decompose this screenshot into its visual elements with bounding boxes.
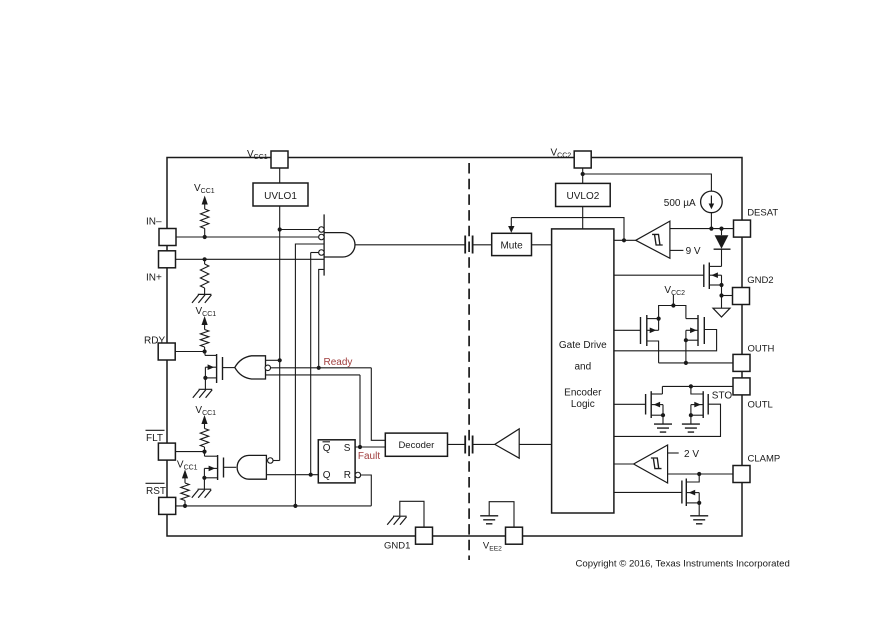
wire Ready net horizontal [271, 367, 372, 369]
wire UVLO2 net to comparator node [511, 218, 624, 241]
wire CLAMP net [668, 473, 733, 475]
capacitor C2 isolation (feedback channel) [464, 436, 466, 454]
svg-text:VCC1: VCC1 [177, 460, 198, 472]
svg-text:Copyright © 2016, Texas Instru: Copyright © 2016, Texas Instruments Inco… [576, 559, 790, 570]
wire M5 source to ground [698, 503, 700, 516]
M5 drain stub to CLAMP net [686, 474, 699, 482]
wire DESAT net [670, 228, 733, 230]
wire M2 drain to OUTH rail [685, 340, 687, 363]
wire GND2 net to ground symbol [721, 296, 723, 309]
svg-text:GND1: GND1 [384, 540, 410, 551]
wire resistor to RDY line [204, 347, 206, 352]
junction OUTH rail [684, 361, 688, 365]
block UVLO2 [556, 183, 611, 206]
svg-text:GND2: GND2 [747, 275, 773, 286]
gate G3 FLT NAND (mirrored) [237, 455, 266, 479]
G1 input edge line [323, 214, 325, 275]
svg-text:OUTH: OUTH [748, 343, 775, 354]
wire FLT pin to pull-up node [175, 451, 204, 453]
wire VCC2 to current source [583, 174, 712, 191]
svg-text:VCC1: VCC1 [196, 306, 217, 318]
ground (M3 source) [654, 424, 672, 432]
svg-text:VCC1: VCC1 [247, 149, 268, 161]
hysteresis glyph U3 [652, 234, 663, 245]
Q2 channel [217, 455, 219, 480]
gate G2 RDY NOR (mirrored) [235, 356, 266, 379]
svg-text:CLAMP: CLAMP [748, 454, 781, 465]
Q1 source stub [205, 377, 216, 379]
pin GND1 [416, 527, 433, 544]
svg-text:VCC1: VCC1 [195, 405, 216, 417]
wire Q net to AND bubble 4 [311, 252, 319, 254]
M6 gate plate [703, 265, 705, 288]
junction RST branch to AND [293, 504, 297, 508]
svg-text:Q: Q [323, 443, 331, 454]
wire RST net to FF R input [361, 475, 372, 506]
wire resistor to RST line [184, 501, 186, 506]
junction IN+ resistor [203, 257, 207, 261]
buffer U4 feedback channel [495, 429, 519, 458]
wire M3 source to ground [662, 415, 664, 424]
M2 body tie [685, 330, 687, 340]
svg-text:IN+: IN+ [146, 273, 162, 284]
M4 channel [702, 391, 704, 418]
M6 channel [708, 263, 710, 290]
ground GND1 (Q2 source) [192, 489, 211, 498]
wire Fault net FF S to Decoder [355, 446, 385, 448]
wire FF Q output to G3 input 2 [266, 474, 318, 476]
wire Q2 drain to FLT line [204, 452, 206, 457]
op-amp U3 DESAT comparator (9V) [636, 221, 670, 258]
wire Mute to Gate Drive block [532, 244, 552, 246]
svg-text:and: and [574, 362, 591, 373]
wire IN+ to AND input 5 [176, 258, 325, 260]
wire VCC2 rail [659, 306, 686, 319]
wire current source to DESAT node [710, 213, 712, 229]
M3 body arrow [654, 402, 661, 408]
wire resistor to FLT line [204, 447, 206, 452]
wire U5 2V reference stub [668, 452, 679, 454]
wire UVLO2 net to Mute arrow [510, 218, 512, 227]
svg-text:STO: STO [712, 390, 733, 401]
transistor Q1 RDY open-drain MOSFET [204, 351, 206, 353]
VCC1 supply arrow (RDY) [202, 316, 208, 325]
resistor IN+ to ground [200, 264, 208, 288]
bubble G2 inverted input (Ready) [265, 365, 271, 371]
svg-text:UVLO2: UVLO2 [567, 191, 600, 202]
svg-text:RDY: RDY [144, 335, 165, 346]
M6 source stub [709, 284, 721, 286]
M5 body arrow [689, 490, 696, 496]
svg-text:DESAT: DESAT [747, 208, 778, 219]
wire U5 output to Gate Drive [614, 463, 634, 465]
svg-text:9 V: 9 V [686, 246, 701, 257]
pin GND2 [733, 288, 750, 305]
wire U3 9V reference stub [670, 249, 684, 251]
ground (M5 source) [690, 516, 708, 524]
svg-text:Gate Drive: Gate Drive [559, 340, 607, 351]
wire Fault net vertical [359, 375, 361, 447]
pin VEE2 [506, 527, 523, 544]
VCC1 supply arrow (RST) [182, 469, 188, 478]
flip-flop U2 (SR latch) [318, 440, 355, 483]
VCC1 supply arrow (FLT) [201, 415, 207, 424]
wire Gate Drive to buffer U4 [519, 443, 551, 445]
wire Gate Drive to M5 gate [614, 491, 682, 493]
M6 drain stub [709, 265, 721, 267]
pin IN+ [159, 251, 176, 268]
bubble U2 R input (active low) [355, 472, 361, 478]
junction M4 source/body [689, 413, 693, 417]
pin OUTL [733, 378, 750, 395]
wire Q net vertical to AND input 4 [310, 253, 312, 475]
pin VCC1 [271, 151, 288, 168]
wire Q2 source to ground [203, 478, 205, 489]
isolation barrier (dashed) [468, 163, 470, 560]
pin DESAT [734, 220, 751, 237]
svg-text:S: S [344, 443, 351, 454]
M4 gate plate [707, 394, 709, 415]
wire Q1 drain to RDY line [204, 352, 206, 356]
M2 channel [697, 315, 699, 346]
svg-text:UVLO1: UVLO1 [264, 191, 297, 202]
M5 channel [685, 479, 687, 507]
M5 body stub [686, 492, 699, 494]
resistor RST pull-up [181, 483, 189, 501]
wire M6 source to GND2 net [721, 285, 723, 296]
wire UVLO2 to Gate Drive block [582, 207, 584, 229]
M1 gate plate [640, 317, 642, 344]
M4 body stub [691, 404, 703, 406]
M6 body arrow [711, 272, 718, 278]
hysteresis glyph U5 [651, 458, 662, 469]
wire UVLO1 net to RDY-gate input 1 [266, 359, 280, 361]
wire UVLO1 net to AND input 1 [280, 229, 319, 231]
Q1 channel [216, 354, 218, 383]
VCC1 supply arrow (IN-) [202, 196, 208, 205]
M5 source stub [686, 502, 699, 504]
wire RDY-gate output to Q1 gate [223, 367, 236, 369]
M4 drain stub to OUTL rail [691, 386, 703, 394]
diode D1 DESAT [721, 229, 723, 236]
wire resistor to IN- line [204, 229, 206, 238]
Q1 body-source tie [204, 367, 206, 378]
wire UVLO1 net to FLT-gate bubble [273, 460, 280, 462]
current source I1 500uA [701, 191, 723, 213]
wire U3 output to Gate Drive [614, 239, 636, 241]
M2 drain stub [686, 339, 698, 341]
wire Gate Drive to M1 gate [614, 329, 641, 331]
M2 gate plate [703, 317, 705, 344]
svg-text:VEE2: VEE2 [483, 540, 502, 552]
M1 source stub [647, 318, 659, 320]
wire Decoder to isolation cap [448, 443, 466, 445]
Q2 gate plate [223, 458, 225, 478]
junction comparator output node [622, 238, 626, 242]
junction RST pull-up [183, 504, 187, 508]
wire VEE2 pin to ground [489, 502, 514, 528]
wire GND1 pin to chassis ground [400, 501, 424, 527]
M3 drain stub [651, 393, 662, 395]
pin RDY [158, 343, 175, 360]
wire Q1 source to ground [204, 378, 206, 389]
Q1 body stub [205, 366, 216, 368]
M4 body-source tie [690, 405, 692, 416]
resistor FLT pull-up [200, 429, 208, 448]
Q1 body arrow [208, 364, 215, 370]
junction Ready net branch [317, 366, 321, 370]
wire resistor to ground [204, 288, 206, 294]
junction Q2 source/body [202, 476, 206, 480]
junction M2 body/drain [684, 338, 688, 342]
M6 body-source tie [721, 275, 723, 285]
M1 drain to OUTH rail [647, 341, 659, 363]
M1 body-source tie [658, 319, 660, 331]
wire Gate Drive to M6 gate [614, 274, 704, 276]
pin VCC2 [574, 151, 591, 168]
wire RDY pin to pull-up node [175, 351, 204, 353]
M1 channel [646, 315, 648, 346]
M4 body arrow [694, 402, 701, 408]
block Gate Drive and Encoder Logic [552, 229, 614, 513]
ground GND1 (Q1 source) [193, 389, 212, 398]
Q2 source stub [204, 477, 217, 479]
Q2 drain stub [205, 455, 218, 457]
svg-text:Mute: Mute [500, 240, 523, 251]
Q1 drain stub [205, 354, 217, 356]
M4 source stub [691, 414, 703, 416]
M3 gate plate [645, 394, 647, 415]
resistor RDY pull-up [200, 330, 208, 348]
M3 channel [650, 391, 652, 418]
wire IN+ line to resistor [204, 259, 206, 264]
wire OUTL rail riser left [661, 386, 663, 394]
M3 body-source tie [662, 405, 664, 416]
pin IN- [159, 229, 176, 246]
bubble G1 input 4 (Q) [319, 250, 325, 256]
svg-text:500 µA: 500 µA [664, 198, 696, 209]
junction VCC2 rail [671, 303, 675, 307]
junction M5 source/body [697, 501, 701, 505]
wire Gate Drive STO line to M4 gate [614, 404, 721, 436]
wire VCC2 label stub [672, 295, 674, 306]
overline RST [146, 482, 165, 484]
svg-text:OUTL: OUTL [748, 399, 773, 410]
M3 source stub [651, 414, 663, 416]
wire VCC1 pin to UVLO1 [279, 168, 281, 183]
wire D1 cathode to M6 drain [721, 249, 723, 266]
resistor IN- pull-up [201, 209, 209, 229]
bubble G1 input 1 (UVLO1) [319, 227, 325, 233]
svg-text:IN–: IN– [146, 217, 162, 228]
op-amp U5 CLAMP comparator (2V) [634, 445, 668, 483]
wire Gate Drive to M3 gate [614, 403, 646, 405]
wire RST net to AND input 3 [295, 244, 324, 506]
bubble G1 input 2 (IN-) [319, 234, 325, 240]
M1 body arrow [650, 328, 657, 334]
pin CLAMP [733, 466, 750, 483]
svg-text:Logic: Logic [571, 399, 595, 410]
wire G2 input 3 to Fault net [266, 374, 361, 376]
overline FLT [146, 429, 165, 431]
pin OUTH [733, 354, 750, 371]
junction Fault net [358, 445, 362, 449]
M1 body stub [647, 329, 659, 331]
junction M3 source/body [661, 413, 665, 417]
wire RST net horizontal [176, 505, 372, 507]
junction M1 source/body [657, 317, 661, 321]
block Decoder [385, 433, 447, 456]
wire G1 output to isolation cap [355, 244, 465, 246]
arrow into Mute [508, 226, 514, 233]
junction DESAT/current source [709, 227, 713, 231]
capacitor C1 isolation (forward channel) [464, 236, 466, 254]
M2 body stub [686, 329, 698, 331]
junction GND2 net [719, 293, 723, 297]
svg-text:Encoder: Encoder [564, 387, 602, 398]
junction FLT pull-up/drain [202, 450, 206, 454]
svg-text:Q: Q [323, 470, 331, 481]
junction Q net branch to AND [309, 473, 313, 477]
junction UVLO1/RDY gate input [278, 358, 282, 362]
svg-text:VCC2: VCC2 [664, 285, 685, 297]
junction DESAT/diode [719, 227, 723, 231]
wire FLT-gate output to Q2 gate [224, 466, 237, 468]
pin RST [159, 497, 176, 514]
wire Ready net up to AND input 6 [319, 269, 324, 367]
M5 gate plate [681, 481, 683, 504]
ground GND1 (IN+ network) [192, 294, 211, 303]
svg-text:2 V: 2 V [684, 449, 699, 460]
svg-text:RST: RST [146, 486, 166, 497]
M5 body-source tie [698, 493, 700, 503]
pin FLT [158, 443, 175, 460]
wire OUTL rail to pin [662, 385, 733, 387]
wire UVLO1 output vertical net [279, 206, 281, 461]
svg-text:Decoder: Decoder [398, 440, 434, 451]
wire cap C1 to Mute [473, 244, 492, 246]
wire VCC2 pin to UVLO2 [582, 168, 584, 183]
junction OUTL rail [689, 384, 693, 388]
junction RDY pull-up/drain [203, 349, 207, 353]
wire buffer output to cap C2 [473, 443, 495, 445]
M6 body stub [709, 274, 721, 276]
wire OUTH rail to pin [659, 362, 733, 364]
ground GND2 symbol (open triangle) [713, 308, 730, 317]
Q2 body stub [204, 467, 217, 469]
svg-text:FLT: FLT [146, 433, 163, 444]
wire Gate Drive to M2 gate [614, 330, 717, 351]
M2 source stub [686, 318, 698, 320]
wire M4 source to ground [690, 415, 692, 424]
M3 body stub [651, 404, 663, 406]
svg-text:R: R [344, 470, 351, 481]
bubble G3 inverted input (UVLO1) [268, 458, 274, 464]
device boundary box [167, 158, 742, 537]
wire IN- to AND input 2 [176, 236, 319, 238]
Q2 body-source tie [203, 468, 205, 477]
svg-text:Fault: Fault [358, 451, 380, 462]
ground (M4 source) [682, 424, 700, 432]
svg-text:Ready: Ready [324, 357, 353, 368]
Q2 body arrow [209, 466, 216, 472]
wire Ready net to Decoder [371, 368, 385, 441]
M2 body arrow [690, 328, 697, 334]
ground VEE2 symbol [480, 516, 498, 524]
ground GND1 symbol [387, 516, 406, 525]
Q1 gate plate [222, 357, 224, 380]
junction VCC2 branch [581, 172, 585, 176]
junction CLAMP net [697, 472, 701, 476]
junction IN- pull-up [203, 235, 207, 239]
junction UVLO1/AND input [278, 227, 282, 231]
wire GND2 net to pin [722, 295, 733, 297]
svg-text:VCC2: VCC2 [551, 147, 572, 159]
svg-text:VCC1: VCC1 [194, 183, 215, 195]
junction M6 source/body [719, 283, 723, 287]
block UVLO1 [253, 183, 308, 206]
junction Q1 source/body [203, 376, 207, 380]
